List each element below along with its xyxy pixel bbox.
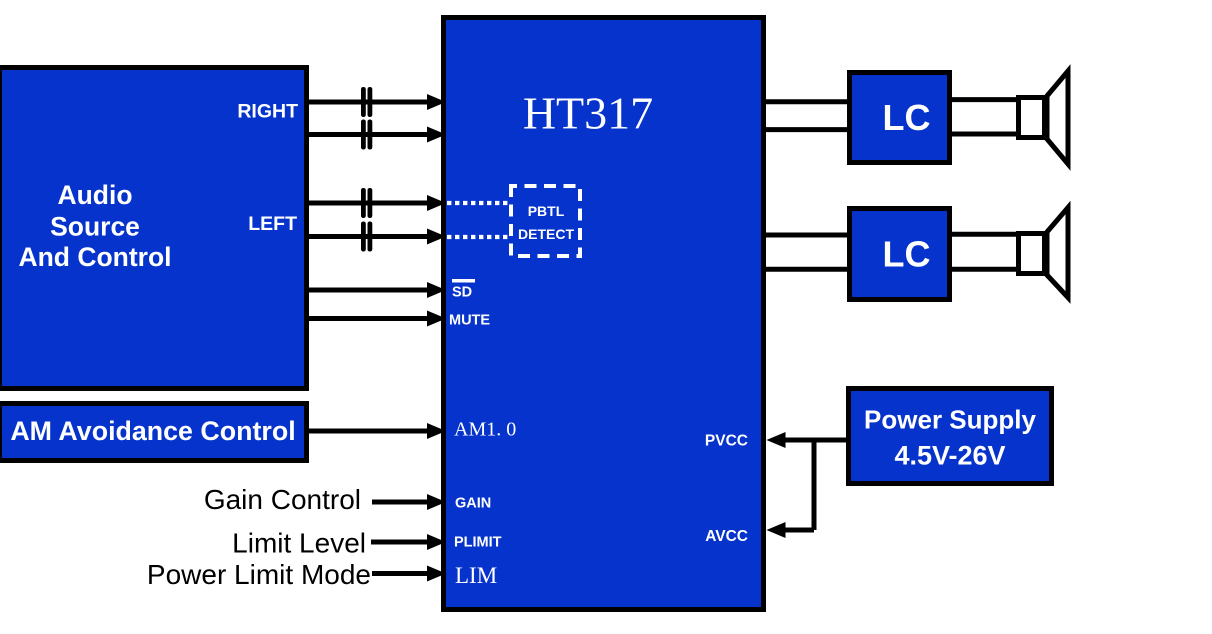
dotted wire to PBTL detect top (447, 201, 509, 205)
wire PVCC with arrow (767, 432, 847, 448)
wire LIM with arrow (372, 566, 446, 582)
IC U1 HT317 (444, 18, 764, 610)
wire GAIN with arrow (372, 494, 446, 510)
svg-text:PBTL: PBTL (528, 203, 565, 219)
wire SD with arrow (309, 282, 446, 298)
svg-text:RIGHT: RIGHT (237, 101, 298, 123)
svg-text:PVCC: PVCC (705, 433, 748, 450)
wire LC1 to speaker bottom (952, 132, 1018, 137)
wire OUTL+ (766, 233, 847, 238)
svg-text:Power Supply: Power Supply (864, 405, 1036, 435)
LC filter block 2 (850, 209, 950, 300)
svg-text:GAIN: GAIN (455, 496, 491, 512)
wire LC2 to speaker bottom (952, 267, 1018, 272)
wire MUTE with arrow (309, 311, 446, 327)
svg-text:DETECT: DETECT (518, 226, 574, 242)
coupling capacitor C2 (361, 120, 372, 150)
wire OUTR+ (766, 99, 847, 104)
dotted wire to PBTL detect bottom (447, 235, 509, 239)
svg-text:AM Avoidance Control: AM Avoidance Control (10, 416, 295, 446)
wire AVCC with arrow (767, 522, 815, 538)
svg-text:LIM: LIM (455, 563, 497, 588)
speaker SPK1 (1019, 71, 1069, 164)
wire LEFT bottom with arrow (309, 229, 446, 245)
coupling capacitor C4 (361, 222, 372, 252)
block: AM Avoidance Control (0, 404, 307, 461)
block: Power Supply (849, 389, 1052, 484)
pin label SD with overline (452, 279, 475, 301)
coupling capacitor C3 (361, 188, 372, 218)
wire RIGHT top with arrow (309, 94, 446, 110)
wire LC1 to speaker top (952, 97, 1018, 102)
svg-text:LEFT: LEFT (248, 213, 297, 235)
LC filter block 1 (850, 73, 950, 163)
wire PLIMIT with arrow (371, 534, 446, 550)
svg-text:Audio: Audio (57, 180, 132, 210)
svg-text:Power Limit Mode: Power Limit Mode (147, 559, 371, 590)
wire LC2 to speaker top (952, 232, 1018, 237)
svg-text:SD: SD (452, 285, 472, 301)
svg-text:HT317: HT317 (523, 88, 653, 139)
svg-text:PLIMIT: PLIMIT (454, 535, 502, 551)
svg-text:Source: Source (50, 212, 140, 242)
svg-text:LC: LC (883, 234, 931, 275)
svg-text:AM1. 0: AM1. 0 (454, 419, 516, 441)
svg-text:AVCC: AVCC (705, 528, 748, 545)
svg-text:Gain Control: Gain Control (204, 484, 361, 515)
speaker SPK2 (1019, 208, 1069, 298)
wire OUTL- (766, 267, 847, 272)
wire power branch vertical (812, 440, 817, 530)
svg-text:MUTE: MUTE (449, 313, 490, 329)
svg-text:Limit Level: Limit Level (232, 528, 366, 559)
svg-text:And Control: And Control (18, 242, 171, 272)
wire OUTR- (766, 127, 847, 132)
coupling capacitor C1 (361, 87, 372, 117)
wire LEFT top with arrow (309, 195, 446, 211)
block: Audio Source And Control (0, 68, 307, 389)
PBTL DETECT dashed block (511, 186, 580, 256)
wire RIGHT bottom with arrow (309, 127, 446, 143)
svg-text:LC: LC (883, 97, 931, 138)
wire AM avoidance with arrow (309, 423, 446, 439)
svg-text:4.5V-26V: 4.5V-26V (894, 441, 1005, 471)
